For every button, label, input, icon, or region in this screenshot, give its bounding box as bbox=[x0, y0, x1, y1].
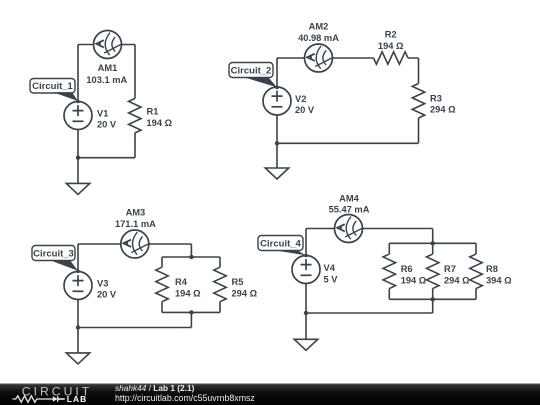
svg-text:V2: V2 bbox=[295, 94, 306, 104]
svg-text:294 Ω: 294 Ω bbox=[430, 105, 456, 115]
svg-text:AM2: AM2 bbox=[309, 22, 329, 32]
svg-text:http://circuitlab.com/c55uvrnb: http://circuitlab.com/c55uvrnb8xmsz bbox=[115, 393, 255, 403]
svg-text:R5: R5 bbox=[232, 277, 244, 287]
svg-text:5 V: 5 V bbox=[324, 274, 339, 284]
svg-text:194 Ω: 194 Ω bbox=[378, 41, 404, 51]
svg-text:shahk44 / Lab 1 (2.1): shahk44 / Lab 1 (2.1) bbox=[115, 383, 195, 393]
svg-text:Circuit_1: Circuit_1 bbox=[32, 81, 73, 92]
svg-text:294 Ω: 294 Ω bbox=[444, 275, 470, 285]
svg-text:R6: R6 bbox=[401, 264, 413, 274]
svg-text:V3: V3 bbox=[97, 278, 108, 288]
svg-text:103.1 mA: 103.1 mA bbox=[86, 75, 127, 85]
svg-text:V1: V1 bbox=[97, 108, 108, 118]
svg-text:Circuit_2: Circuit_2 bbox=[231, 66, 272, 77]
svg-text:AM3: AM3 bbox=[126, 208, 146, 218]
svg-text:194 Ω: 194 Ω bbox=[401, 275, 427, 285]
svg-text:R8: R8 bbox=[486, 264, 498, 274]
svg-text:R1: R1 bbox=[147, 107, 159, 117]
svg-text:20 V: 20 V bbox=[97, 120, 117, 130]
svg-text:194 Ω: 194 Ω bbox=[175, 288, 201, 298]
svg-text:Circuit_3: Circuit_3 bbox=[33, 249, 74, 260]
svg-text:294 Ω: 294 Ω bbox=[232, 288, 258, 298]
svg-text:194 Ω: 194 Ω bbox=[147, 118, 173, 128]
svg-text:40.98 mA: 40.98 mA bbox=[298, 33, 339, 43]
svg-text:V4: V4 bbox=[324, 263, 336, 273]
svg-text:55.47 mA: 55.47 mA bbox=[329, 204, 370, 214]
svg-text:20 V: 20 V bbox=[295, 105, 315, 115]
svg-text:AM1: AM1 bbox=[98, 63, 118, 73]
svg-text:171.1 mA: 171.1 mA bbox=[115, 219, 156, 229]
svg-text:20 V: 20 V bbox=[97, 290, 117, 300]
svg-text:394 Ω: 394 Ω bbox=[486, 275, 512, 285]
svg-text:R7: R7 bbox=[444, 264, 456, 274]
svg-text:Circuit_4: Circuit_4 bbox=[260, 239, 301, 250]
svg-text:LAB: LAB bbox=[67, 394, 88, 404]
svg-text:R4: R4 bbox=[175, 277, 188, 287]
svg-text:R3: R3 bbox=[430, 93, 442, 103]
svg-text:R2: R2 bbox=[385, 30, 397, 40]
svg-text:AM4: AM4 bbox=[339, 193, 359, 203]
